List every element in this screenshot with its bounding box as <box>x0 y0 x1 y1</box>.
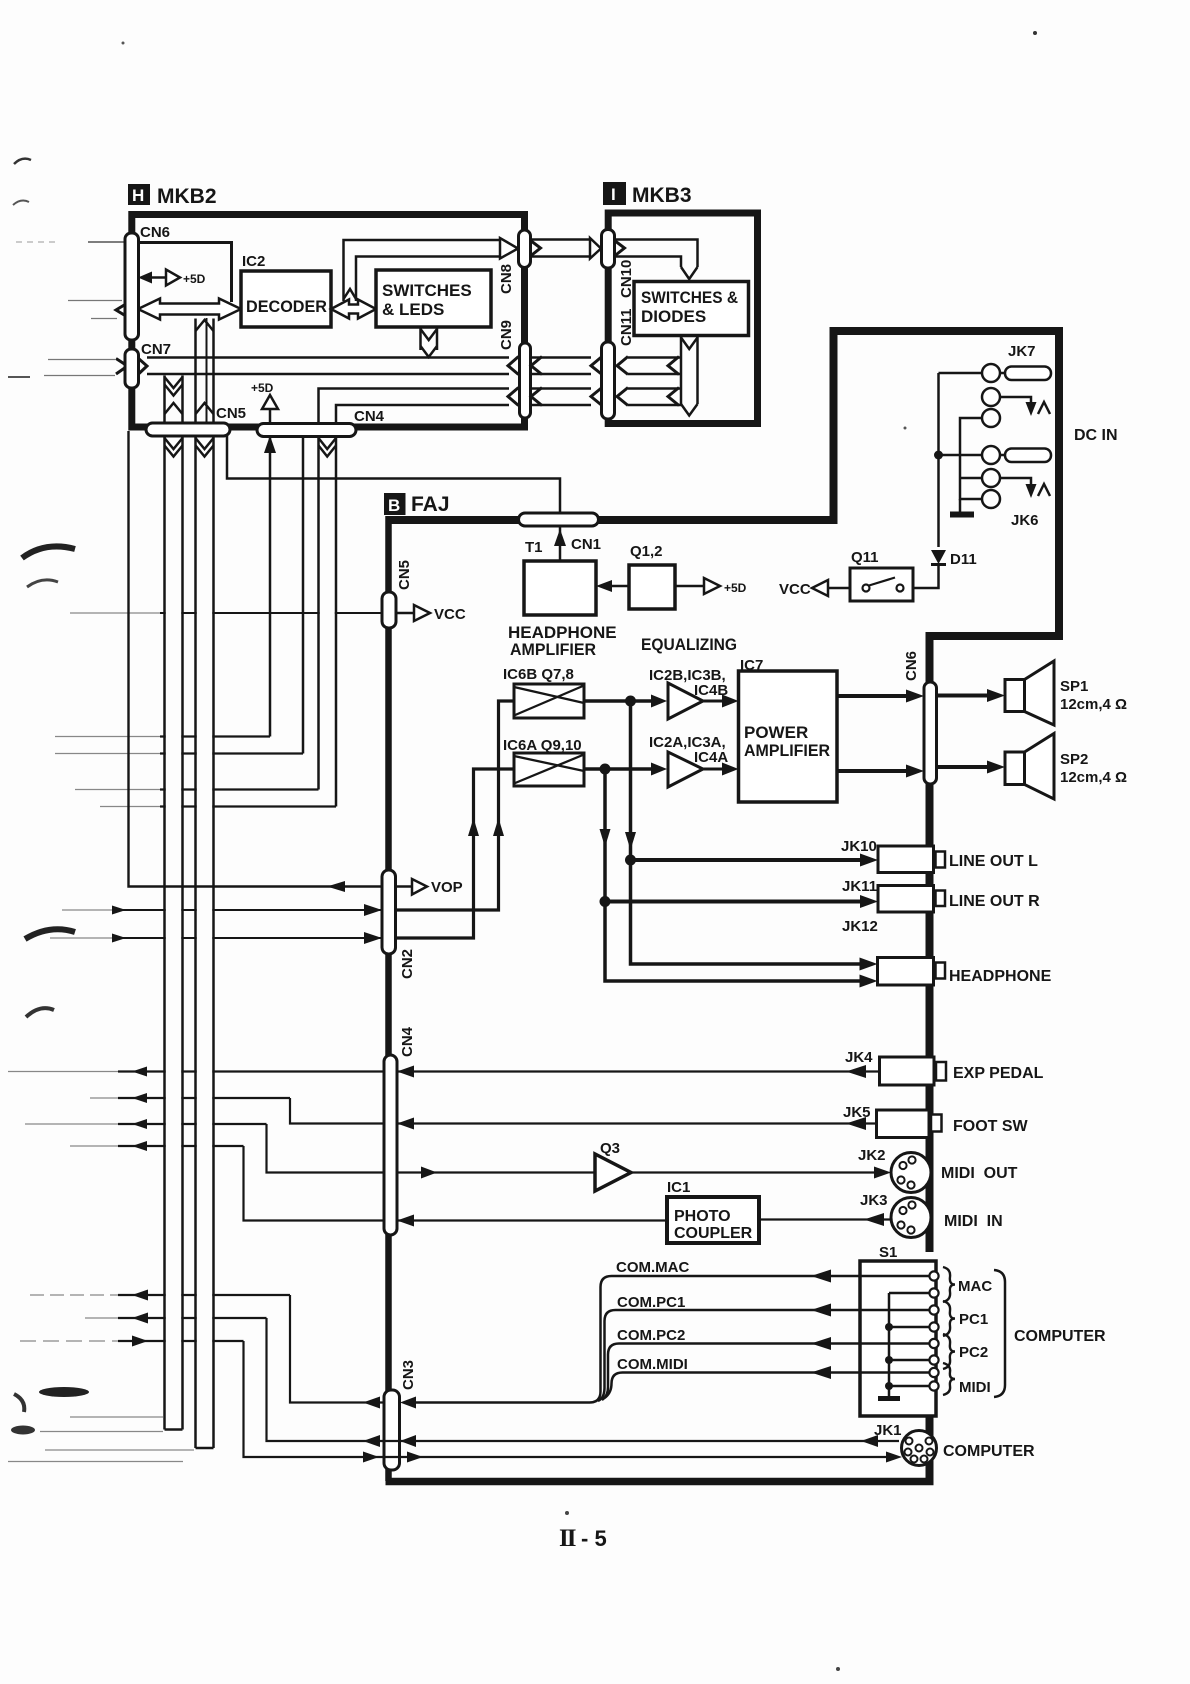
wire IC6B to triangle B <box>584 699 655 703</box>
wire CN2 to VOP hollow arrow <box>396 885 413 888</box>
wire w3 left part MIDI OUT <box>25 1123 118 1125</box>
svg-text:MKB2: MKB2 <box>157 185 217 208</box>
transistor Q3 triangle <box>595 1154 631 1191</box>
wire into CN6 from left margin <box>88 241 125 243</box>
svg-text:IC6B Q7,8: IC6B Q7,8 <box>503 666 574 683</box>
arrows small left margin w1-w4 <box>132 1067 147 1077</box>
scan artifacts <box>14 159 31 164</box>
jack JK5 <box>877 1110 930 1138</box>
label square B <box>384 493 406 515</box>
wire CN6 to SP2 <box>937 765 991 769</box>
wire Q11 to VCC hollow arrow <box>828 587 850 590</box>
wire CN4 to Q3 <box>397 1171 595 1173</box>
connector CN1 capsule <box>519 513 599 526</box>
wire Q1,2 to +5D hollow arrow <box>675 585 704 588</box>
wire IC6A to triangle A <box>584 767 655 771</box>
hollow chevron left of CN6 <box>116 303 128 317</box>
svg-text:CN5: CN5 <box>216 405 246 422</box>
bus1 white band <box>166 375 182 1429</box>
svg-text:VCC: VCC <box>434 606 466 623</box>
svg-text:SWITCHES: SWITCHES <box>382 281 472 300</box>
wire h4 <box>100 806 160 808</box>
connector CN10 capsule <box>602 230 615 269</box>
svg-text:& LEDS: & LEDS <box>382 300 444 319</box>
svg-text:+5D: +5D <box>724 581 747 595</box>
wire CN6 to SP1 <box>937 694 991 698</box>
svg-text:DIODES: DIODES <box>641 307 706 326</box>
wire CN4 riser h2 <box>302 436 305 754</box>
bus2 chevron above CN5 <box>196 403 214 414</box>
svg-text:MIDI: MIDI <box>959 1379 991 1396</box>
bus terminal faint wires <box>70 1416 163 1418</box>
bus row B <box>319 389 510 425</box>
svg-text:JK6: JK6 <box>1011 512 1039 529</box>
svg-text:CN1: CN1 <box>571 536 601 553</box>
bus1 chevrons below CN5 <box>165 438 183 449</box>
board MKB2 outline box <box>132 215 525 428</box>
wire COM.PC2 <box>602 1344 929 1401</box>
svg-text:HEADPHONE: HEADPHONE <box>949 968 1052 985</box>
wire JK3 to photo coupler <box>759 1218 891 1220</box>
jack JK3 MIDI IN <box>891 1198 931 1238</box>
bus2 bottom cap <box>196 1447 214 1450</box>
svg-text:SP1: SP1 <box>1060 678 1088 695</box>
svg-text:D11: D11 <box>950 551 977 568</box>
op-amp triangle A <box>668 752 703 787</box>
svg-text:EQUALIZING: EQUALIZING <box>641 635 737 654</box>
svg-text:COM.PC2: COM.PC2 <box>617 1327 685 1344</box>
connector CN11 capsule <box>602 342 615 419</box>
amplifier IC6B box <box>514 684 584 718</box>
svg-text:Q1,2: Q1,2 <box>630 543 663 560</box>
svg-text:I: I <box>611 185 616 204</box>
svg-text:PHOTO: PHOTO <box>674 1208 731 1225</box>
wire JK1 lower (in) <box>244 1341 891 1457</box>
transistor Q1,2 box <box>629 565 675 609</box>
transformer T1 box (headphone amplifier) <box>524 561 596 615</box>
switches and diodes box <box>634 282 749 336</box>
svg-text:CN9: CN9 <box>498 320 515 350</box>
wire VCC to FAJ CN5 <box>70 612 160 614</box>
svg-text:JK7: JK7 <box>1008 343 1036 360</box>
svg-text:CN2: CN2 <box>399 949 416 979</box>
svg-text:S1: S1 <box>879 1244 897 1261</box>
svg-text:POWER: POWER <box>744 723 808 742</box>
svg-text:JK11: JK11 <box>842 878 877 895</box>
bus2 chevrons below CN5 <box>196 438 214 449</box>
wire triangle B to IC7 <box>703 700 726 703</box>
wire CN1 down to T1 with up arrow <box>559 526 562 561</box>
amplifier IC6A box <box>514 753 584 786</box>
bus CN10 into SWITCHES&amp;DIODES <box>615 240 698 268</box>
jack JK10 LINE OUT L <box>878 846 934 873</box>
wire CN2 to IC6A input <box>396 769 515 938</box>
wire JK5 FOOT SW to CN4 <box>397 1122 877 1124</box>
wire m1 riser from left <box>290 1295 364 1403</box>
svg-text:COMPUTER: COMPUTER <box>1014 1328 1106 1345</box>
wire channel B down to JK10 and headphone <box>631 701 867 964</box>
faint bus outline left of CN7 <box>48 359 115 361</box>
svg-text:VCC: VCC <box>779 581 811 598</box>
connector CN7 capsule <box>125 349 139 388</box>
wire +5D riser from h1 <box>269 437 272 737</box>
svg-text:IC1: IC1 <box>667 1179 690 1196</box>
bus3 left line down from CN4 to h3 <box>317 436 320 790</box>
+5D hollow triangle above CN5 <box>262 395 278 409</box>
svg-text:COM.PC1: COM.PC1 <box>617 1294 685 1311</box>
svg-text:JK12: JK12 <box>842 918 878 935</box>
faint bus outline left of CN6 <box>68 300 122 302</box>
bus branch up to CN8 <box>344 240 501 301</box>
svg-text:COM.MAC: COM.MAC <box>616 1259 689 1276</box>
jack JK12 HEADPHONE <box>878 958 934 986</box>
speaker SP1 <box>1005 680 1025 712</box>
svg-text:VOP: VOP <box>431 879 463 896</box>
pair bracket MIDI <box>943 1363 955 1395</box>
svg-text:JK4: JK4 <box>845 1049 873 1066</box>
svg-text:COMPUTER: COMPUTER <box>943 1443 1035 1460</box>
wire w4 riser MIDI IN <box>244 1146 385 1221</box>
bus3 chevrons below CN4 <box>319 438 337 449</box>
FAJ bottom border <box>386 1478 934 1486</box>
connector CN9 capsule <box>520 343 531 418</box>
wire m1 left part COM <box>30 1294 118 1296</box>
svg-text:JK3: JK3 <box>860 1192 888 1209</box>
bus1 top V chevrons <box>165 377 183 388</box>
svg-text:FAJ: FAJ <box>411 493 450 516</box>
svg-text:MAC: MAC <box>958 1278 992 1295</box>
wire COM bundle down to CN3 <box>400 1397 416 1409</box>
label square I <box>603 182 626 205</box>
wire Q1,2 to T1 with solid arrow <box>610 585 629 588</box>
wire w3 riser MIDI OUT <box>267 1124 385 1173</box>
+5D feed wire with solid arrow into CN6 <box>148 276 166 279</box>
svg-text:DC IN: DC IN <box>1074 427 1118 444</box>
svg-text:CN6: CN6 <box>140 224 170 241</box>
diode D11 <box>931 550 946 564</box>
speaker SP2 <box>1005 752 1025 785</box>
wide bus arrow CN6 to DECODER <box>138 299 241 320</box>
jack JK11 LINE OUT R <box>878 886 934 913</box>
wire h1 <box>55 736 160 738</box>
svg-text:CN4: CN4 <box>354 408 385 425</box>
wire COM.MIDI <box>605 1373 930 1399</box>
svg-text:COM.MIDI: COM.MIDI <box>617 1356 688 1373</box>
S1 inner common wire <box>889 1292 929 1295</box>
wire JK1 upper (out) <box>267 1318 900 1441</box>
wire to JK11 <box>605 900 862 904</box>
svg-text:- 5: - 5 <box>581 1526 607 1551</box>
svg-text:IC2: IC2 <box>242 253 265 270</box>
switches and leds box <box>376 270 491 327</box>
svg-text:CN3: CN3 <box>400 1360 417 1390</box>
wire IC7 top output to CN6 <box>837 694 910 698</box>
big bracket COMPUTER <box>994 1270 1005 1397</box>
bus CN8 to CN10 <box>531 238 591 241</box>
wire COM.MAC <box>416 1276 929 1403</box>
pair bracket PC2 <box>943 1334 955 1369</box>
wire triangle A to IC7 <box>703 768 726 771</box>
FAJ upper-right border loop <box>834 331 1060 636</box>
bus2 top chevron up <box>196 320 214 331</box>
+5D hollow triangle <box>166 270 180 286</box>
wire w4 left part MIDI IN <box>70 1145 118 1147</box>
svg-text:B: B <box>388 496 400 515</box>
op-amp triangle B <box>668 683 703 719</box>
jack JK1 COMPUTER <box>902 1431 937 1466</box>
connector CN5 capsule <box>146 423 230 436</box>
wire CN2 to IC6B input <box>396 701 515 910</box>
svg-text:CN8: CN8 <box>498 264 515 294</box>
svg-text:MIDI IN: MIDI IN <box>944 1213 1003 1230</box>
wire Q3 to JK2 <box>631 1171 877 1173</box>
svg-text:CN11: CN11 <box>618 308 635 346</box>
wire m3 left part JK1 in <box>20 1340 118 1342</box>
wire VOP return from MKB2 corner <box>129 431 383 887</box>
wide double arrow DECODER to SWITCHES&amp;LEDS <box>331 300 376 319</box>
bus from S&L bottom down <box>419 327 422 350</box>
wire w1 left part EXP PEDAL <box>8 1071 118 1073</box>
pair bracket MAC <box>943 1267 955 1302</box>
wire into CN2 upper <box>62 909 112 911</box>
FAJ right border lower segment <box>926 1390 934 1482</box>
bus1 chevrons above CN5 <box>165 403 183 414</box>
connector CN5 capsule on FAJ border <box>382 592 396 628</box>
wire IC7 bottom output to CN6 <box>837 769 910 773</box>
connector CN3 capsule <box>384 1390 400 1470</box>
jack JK2 MIDI OUT <box>891 1153 931 1193</box>
connector CN6 capsule <box>125 233 139 340</box>
svg-text:IC7: IC7 <box>740 657 763 674</box>
svg-text:CN4: CN4 <box>399 1026 416 1057</box>
bus3 white band <box>320 436 335 788</box>
wire MKB2 CN5 to FAJ CN1 <box>227 436 560 513</box>
svg-text:+5D: +5D <box>251 381 274 395</box>
wire COM.PC1 <box>598 1310 929 1401</box>
DC IN wiring <box>939 372 983 375</box>
svg-text:AMPLIFIER: AMPLIFIER <box>744 741 830 760</box>
wire photo coupler to CN4 <box>397 1219 667 1221</box>
svg-text:JK1: JK1 <box>874 1422 902 1439</box>
wire channel A down to JK11 and headphone <box>605 769 866 981</box>
ground bar in S1 <box>878 1396 900 1401</box>
wire JK4 EXP PEDAL to CN4 <box>397 1070 880 1072</box>
svg-text:IC6A Q9,10: IC6A Q9,10 <box>503 737 582 754</box>
DC IN jack circles JK7/JK6 <box>982 364 1000 382</box>
svg-text:MKB3: MKB3 <box>632 184 692 207</box>
connector CN6 capsule <box>924 682 937 784</box>
svg-text:FOOT SW: FOOT SW <box>953 1118 1029 1135</box>
svg-text:12cm,4 Ω: 12cm,4 Ω <box>1060 769 1127 786</box>
pair bracket PC1 <box>943 1301 955 1336</box>
bus1 vertical bus outline lines <box>163 376 166 1430</box>
svg-text:SP2: SP2 <box>1060 751 1088 768</box>
wire h2 <box>55 753 160 755</box>
wire w2 left part FOOT SW <box>90 1097 118 1099</box>
IC2 DECODER box <box>241 271 331 327</box>
svg-text:H: H <box>132 186 144 205</box>
S1 contact pin circles <box>929 1271 938 1280</box>
svg-text:12cm,4 Ω: 12cm,4 Ω <box>1060 696 1127 713</box>
FAJ right border upper segment <box>926 632 934 1252</box>
FAJ left border <box>385 516 392 1481</box>
wire h3 <box>75 789 160 791</box>
bus1 bottom cap <box>165 1428 183 1431</box>
bus row A between CN9 and CN11 <box>531 356 592 359</box>
bus3 right line down from CN4 to h4 <box>335 436 338 807</box>
bus2 vertical bus outline lines <box>194 319 197 1449</box>
jack JK4 <box>880 1057 935 1085</box>
connector CN4 capsule <box>257 424 356 437</box>
connector CN4 capsule <box>384 1055 397 1235</box>
bus row B between CN9 and CN11 <box>531 387 592 390</box>
svg-text:AMPLIFIER: AMPLIFIER <box>510 640 596 659</box>
svg-text:EXP PEDAL: EXP PEDAL <box>953 1065 1044 1082</box>
wire rectangle from CN6 to +5D area <box>138 243 232 303</box>
FAJ top border <box>386 516 834 524</box>
connector CN2 capsule <box>382 870 396 954</box>
svg-text:MIDI OUT: MIDI OUT <box>941 1165 1018 1182</box>
svg-text:PC2: PC2 <box>959 1344 988 1361</box>
wire m2 left part JK1 out <box>85 1317 118 1319</box>
svg-text:CN10: CN10 <box>618 260 635 298</box>
bus row A (CN7 bus) <box>147 356 509 359</box>
svg-text:II: II <box>559 1525 576 1552</box>
svg-text:Q3: Q3 <box>600 1140 620 1157</box>
svg-text:LINE OUT L: LINE OUT L <box>949 853 1038 870</box>
arrows into CN2 small left <box>112 906 126 915</box>
label square H <box>128 184 150 205</box>
bus row B inside MKB3 <box>628 387 681 390</box>
svg-text:CN7: CN7 <box>141 341 171 358</box>
svg-text:COUPLER: COUPLER <box>674 1225 753 1242</box>
svg-text:+5D: +5D <box>183 272 206 286</box>
svg-text:LINE OUT R: LINE OUT R <box>949 893 1040 910</box>
svg-text:Q11: Q11 <box>851 549 879 566</box>
board MKB3 outline box <box>608 213 757 424</box>
switch Q11 box <box>850 568 913 601</box>
jack pin pills <box>1000 372 1006 375</box>
connector CN8 capsule <box>519 230 531 268</box>
wire D11 to Q11 <box>913 564 939 588</box>
wire to JK10 <box>631 858 863 862</box>
thin wire inside bus2 from CN5 up <box>206 318 208 423</box>
wire into CN2 lower <box>50 937 112 939</box>
power amplifier IC7 box <box>739 671 838 802</box>
svg-text:CN5: CN5 <box>396 560 413 590</box>
switch S1 box <box>860 1261 936 1416</box>
bus row A inside MKB3 <box>628 356 681 359</box>
svg-text:JK2: JK2 <box>858 1147 886 1164</box>
headphone arrows <box>860 958 878 971</box>
svg-text:CN6: CN6 <box>903 651 920 681</box>
photo coupler IC1 box <box>667 1197 759 1243</box>
svg-text:T1: T1 <box>525 539 543 556</box>
svg-text:JK10: JK10 <box>841 838 877 855</box>
svg-text:PC1: PC1 <box>959 1311 988 1328</box>
wire CN5 to VCC hollow arrow <box>396 612 414 615</box>
bus2 white band <box>197 318 213 1447</box>
svg-text:JK5: JK5 <box>843 1104 871 1121</box>
wire w2 riser FOOT SW <box>290 1098 384 1124</box>
bus below S&D box <box>680 336 683 405</box>
svg-text:SWITCHES &: SWITCHES & <box>641 288 738 307</box>
svg-text:DECODER: DECODER <box>246 297 327 316</box>
